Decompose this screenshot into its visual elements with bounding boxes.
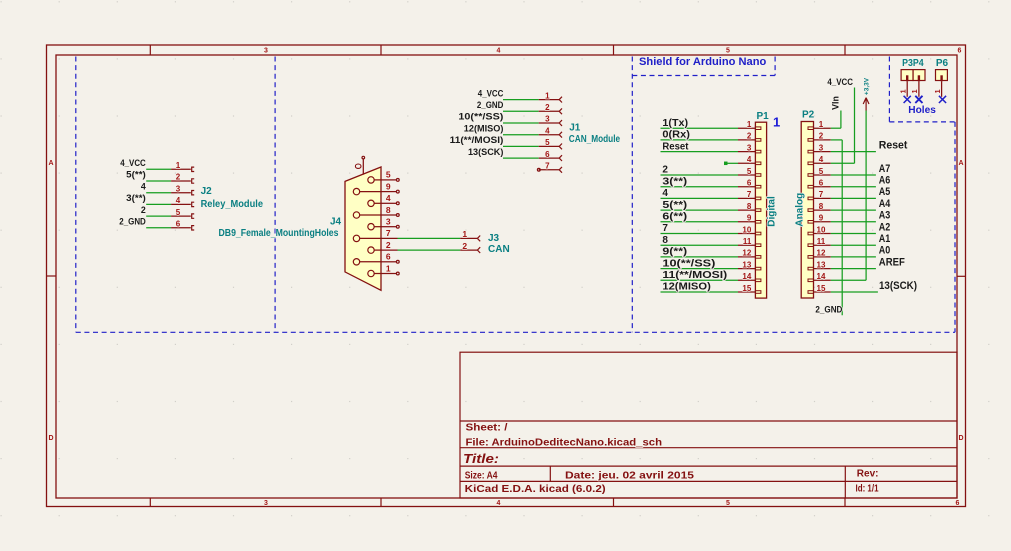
wire to P1 pin 2 [661, 139, 739, 141]
svg-text:Title:: Title: [463, 451, 499, 466]
svg-text:3: 3 [386, 217, 391, 227]
svg-text:9: 9 [819, 214, 824, 223]
J4 pin 5 pad [368, 177, 381, 183]
P2 pin 5 [808, 174, 831, 177]
svg-text:1: 1 [773, 115, 780, 130]
P1 pin 7 [738, 197, 761, 200]
wire to P1 pin 11 [661, 244, 739, 246]
J1 pin 3 [539, 120, 562, 126]
J4 pin 9 pad [353, 188, 381, 194]
svg-text:11: 11 [817, 237, 826, 246]
J4 pin 8 stub [381, 214, 399, 217]
svg-text:J4: J4 [330, 216, 342, 227]
wire P2 pin2 to 2_GND [831, 140, 842, 315]
svg-text:5: 5 [747, 167, 752, 176]
P1 pin 2 [738, 139, 761, 142]
svg-text:P1: P1 [757, 111, 770, 122]
svg-text:D: D [48, 435, 53, 442]
svg-text:A3: A3 [879, 210, 891, 222]
svg-text:2_GND: 2_GND [477, 100, 504, 110]
wire to P1 pin 9 [661, 221, 739, 223]
frame column ticks [47, 45, 966, 507]
svg-text:4: 4 [386, 193, 391, 203]
J4 pin 5 stub [381, 179, 399, 182]
P1 pin 8 [738, 209, 761, 212]
svg-text:VIn: VIn [831, 96, 841, 110]
J4 pin 7 stub [381, 237, 398, 239]
svg-text:Id: 1/1: Id: 1/1 [856, 484, 879, 495]
svg-text:14: 14 [742, 272, 751, 281]
svg-text:2: 2 [176, 173, 181, 182]
wire to J2 pin 2 [146, 180, 171, 182]
J2 pin 1 [171, 167, 194, 171]
svg-text:3(**): 3(**) [662, 176, 687, 187]
svg-text:9(**): 9(**) [662, 247, 687, 258]
svg-text:1: 1 [462, 229, 467, 239]
P2 pin 4 [808, 162, 831, 165]
svg-text:9: 9 [386, 181, 391, 191]
P2 pin 15 [808, 291, 831, 294]
no-connect X at P3 [904, 96, 911, 103]
svg-text:1: 1 [386, 263, 391, 273]
dashed box Holes group [889, 57, 955, 122]
svg-text:P6: P6 [936, 58, 949, 69]
P2 pin 9 [808, 221, 831, 224]
svg-text:3: 3 [747, 143, 752, 152]
svg-text:5: 5 [819, 167, 824, 176]
svg-text:9: 9 [747, 214, 752, 223]
P1 pin 6 [738, 185, 761, 188]
wire to J2 pin 5 [146, 215, 171, 217]
svg-text:4_VCC: 4_VCC [827, 77, 853, 87]
wire to J1 pin 5 [503, 145, 539, 147]
J4 pin 6 pad [353, 259, 381, 265]
J4 pin 8 pad [353, 212, 381, 218]
svg-text:KiCad E.D.A. kicad (6.0.2): KiCad E.D.A. kicad (6.0.2) [465, 484, 606, 495]
P1 pin 9 [738, 221, 761, 224]
svg-text:7: 7 [747, 190, 752, 199]
svg-text:2: 2 [545, 103, 550, 112]
svg-text:12: 12 [742, 249, 751, 258]
P2 pin 3 [808, 150, 831, 153]
sheet frame outer border [47, 45, 966, 507]
wire to J2 pin 3 [146, 192, 171, 194]
P4 pin 1 [918, 75, 920, 97]
svg-text:1: 1 [747, 120, 752, 129]
J1 pin 2 [539, 108, 562, 114]
svg-text:Digital: Digital [767, 196, 778, 227]
wire to J2 pin 6 [146, 227, 171, 229]
svg-text:1: 1 [900, 89, 907, 93]
wire J4 pin2 to J3 pin2 [398, 249, 461, 251]
P2 pin 12 [808, 256, 831, 259]
svg-text:13: 13 [742, 260, 751, 269]
svg-text:4: 4 [141, 181, 146, 191]
P1 pin 3 [738, 150, 761, 153]
wire to P1 pin 12 [661, 256, 739, 258]
svg-text:8: 8 [386, 205, 391, 215]
svg-text:7: 7 [662, 223, 668, 234]
svg-text:4: 4 [545, 126, 550, 135]
svg-text:J3: J3 [488, 233, 500, 244]
wire P2 pin9 A3 [831, 221, 876, 223]
svg-text:2: 2 [462, 241, 467, 251]
P3 pin 1 [906, 75, 908, 97]
wire P2 pin1 to VIn [831, 111, 841, 129]
P1 pin 5 [738, 174, 761, 177]
svg-text:13(SCK): 13(SCK) [468, 147, 503, 157]
J4 shield pin 10 [355, 156, 364, 174]
svg-text:1: 1 [545, 91, 550, 100]
svg-text:3: 3 [819, 143, 824, 152]
wire P2 pin4 to 4_VCC [831, 88, 855, 164]
wire P2 pin15 13(SCK) [831, 291, 878, 293]
J4 pin 2 stub [381, 249, 398, 251]
wire P2 pin11 A1 [831, 244, 876, 246]
frame row letters [48, 160, 963, 442]
svg-text:4: 4 [662, 188, 668, 199]
svg-text:A2: A2 [879, 221, 891, 233]
J1 pin 7 [537, 167, 562, 173]
wire to J1 pin 4 [503, 134, 539, 136]
svg-text:6(**): 6(**) [662, 212, 687, 223]
svg-text:7: 7 [545, 162, 550, 171]
J4 pin 6 stub [381, 260, 399, 263]
P2 pin 10 [808, 232, 831, 235]
J3 pin 1 [460, 236, 480, 242]
svg-text:4: 4 [819, 155, 824, 164]
svg-text:10(**/SS): 10(**/SS) [458, 112, 503, 122]
wire to P1 pin 15 [661, 291, 739, 293]
svg-text:A6: A6 [879, 175, 891, 187]
P1 pin 11 [738, 244, 761, 247]
svg-text:8: 8 [662, 235, 668, 246]
J3 pin 2 [460, 247, 480, 253]
P1 pin 13 [738, 267, 761, 270]
svg-text:Rev:: Rev: [857, 469, 879, 480]
svg-text:J2: J2 [201, 186, 213, 197]
svg-text:10(**/SS): 10(**/SS) [662, 258, 715, 269]
svg-text:6: 6 [747, 179, 752, 188]
wire to P1 pin 8 [661, 209, 739, 211]
P2 pin 13 [808, 267, 831, 270]
svg-text:1: 1 [935, 89, 942, 93]
sheet frame inner border [56, 55, 957, 498]
svg-text:P3P4: P3P4 [902, 58, 924, 69]
J2 pin 6 [171, 226, 194, 230]
svg-text:A: A [48, 160, 53, 167]
svg-text:Date: jeu. 02 avril 2015: Date: jeu. 02 avril 2015 [565, 470, 695, 481]
P1 pin 15 [738, 291, 761, 294]
svg-text:5: 5 [386, 170, 391, 180]
svg-text:11(**/MOSI): 11(**/MOSI) [662, 270, 727, 281]
dangling wire stub at P1 pin 4 [724, 162, 738, 166]
svg-text:File: ArduinoDeditecNano.kicad: File: ArduinoDeditecNano.kicad_sch [466, 438, 663, 449]
mounting hole P3 body [901, 70, 913, 81]
svg-text:1: 1 [912, 89, 919, 93]
J2 pin 4 [171, 202, 194, 206]
J4 pin 2 pad [368, 247, 381, 253]
wire P2 pin5 A7 [831, 174, 876, 176]
svg-text:D: D [958, 435, 963, 442]
svg-text:11: 11 [743, 237, 752, 246]
wire P2 pin12 A0 [831, 256, 876, 258]
J2 pin 3 [171, 191, 194, 195]
P2 pin 2 [808, 139, 831, 142]
dashed title sub-box Shield for Arduino Nano [632, 57, 775, 76]
svg-text:A: A [958, 160, 963, 167]
wire P2 pin14 to +3,3V [831, 111, 866, 281]
wire to J2 pin 4 [146, 203, 171, 205]
svg-text:4: 4 [497, 500, 501, 507]
svg-text:10: 10 [742, 225, 751, 234]
svg-text:3: 3 [264, 48, 268, 55]
P2 pin 14 [808, 279, 831, 282]
J1 pin 1 [539, 97, 562, 103]
connector P2 body [801, 122, 813, 299]
P6 pin 1 [940, 75, 942, 97]
svg-text:6: 6 [176, 220, 181, 229]
mounting hole P6 body [936, 70, 948, 81]
svg-text:14: 14 [817, 272, 826, 281]
P1 pin 4 [738, 162, 761, 165]
svg-text:AREF: AREF [879, 256, 905, 268]
wire to J2 pin 1 [146, 168, 171, 170]
svg-text:Reset: Reset [662, 141, 689, 152]
svg-text:13: 13 [817, 260, 826, 269]
svg-text:4_VCC: 4_VCC [478, 88, 504, 98]
svg-text:6: 6 [545, 150, 550, 159]
J4 pin 7 pad [353, 235, 381, 241]
wire P2 pin7 A5 [831, 197, 876, 199]
dashed selection box left group [76, 57, 955, 333]
svg-text:4_VCC: 4_VCC [120, 158, 146, 168]
svg-text:A7: A7 [879, 163, 891, 175]
no-connect X at P6 [939, 96, 946, 103]
J4 pin 1 stub [381, 272, 399, 275]
svg-text:1(Tx): 1(Tx) [662, 118, 688, 129]
J4 pin 3 stub [381, 225, 399, 228]
svg-text:12(MISO): 12(MISO) [464, 123, 504, 133]
connector P1 body [755, 122, 766, 298]
P2 pin 11 [808, 244, 831, 247]
wire to P1 pin 3 [661, 151, 739, 153]
svg-text:6: 6 [956, 500, 960, 507]
wire J4 pin7 to J3 pin1 [398, 237, 461, 239]
wire to J1 pin 1 [503, 99, 539, 101]
svg-text:5: 5 [726, 500, 730, 507]
svg-text:DB9_Female_MountingHoles: DB9_Female_MountingHoles [219, 228, 339, 239]
wire P2 pin3 Reset [831, 151, 876, 153]
wire to J1 pin 2 [503, 110, 539, 112]
svg-text:3: 3 [176, 184, 181, 193]
svg-text:Holes: Holes [908, 105, 936, 116]
svg-text:2: 2 [141, 205, 146, 215]
svg-text:7: 7 [819, 190, 824, 199]
connector J2 Reley_Module [0, 0, 1, 1]
wire P2 pin8 A4 [831, 209, 876, 211]
svg-text:4: 4 [176, 196, 181, 205]
svg-text:13(SCK): 13(SCK) [879, 280, 917, 292]
svg-text:Sheet: /: Sheet: / [466, 423, 508, 434]
J2 pin 5 [171, 214, 194, 218]
svg-text:Size: A4: Size: A4 [465, 470, 498, 481]
J4 pin 4 pad [368, 200, 381, 206]
svg-text:2: 2 [386, 240, 391, 250]
J4 pin 3 pad [368, 224, 381, 230]
svg-text:10: 10 [817, 225, 826, 234]
svg-text:4: 4 [747, 155, 752, 164]
svg-text:5(**): 5(**) [126, 170, 146, 180]
J2 pin 2 [171, 179, 194, 183]
wire to P1 pin 1 [661, 127, 739, 129]
J4 pin 4 stub [381, 202, 399, 205]
svg-text:6: 6 [958, 48, 962, 55]
svg-text:3: 3 [545, 115, 550, 124]
svg-text:1: 1 [176, 161, 181, 170]
J1 pin 6 [539, 155, 562, 161]
svg-text:Reley_Module: Reley_Module [201, 199, 264, 210]
svg-text:7: 7 [386, 228, 391, 238]
P1 pin 12 [738, 256, 761, 259]
J4 pin 9 stub [381, 190, 399, 193]
svg-text:Reset: Reset [879, 139, 908, 151]
svg-text:A0: A0 [879, 245, 891, 257]
P1 pin 1 [738, 127, 761, 130]
P2 pin 1 [808, 127, 831, 130]
wire to J1 pin 3 [503, 122, 539, 124]
mounting hole P4 body [913, 70, 925, 81]
connector J4 DB9 body [345, 167, 381, 290]
svg-text:5: 5 [176, 208, 181, 217]
svg-text:4: 4 [497, 48, 501, 55]
wire to P1 pin 6 [661, 186, 739, 188]
svg-text:12(MISO): 12(MISO) [662, 282, 710, 293]
wire to P1 pin 10 [661, 233, 739, 235]
J4 pin 1 pad [368, 270, 381, 276]
wire to P1 pin 14 [661, 279, 739, 281]
power symbol +3,3V arrow [863, 98, 869, 111]
svg-text:15: 15 [742, 284, 751, 293]
svg-text:3(**): 3(**) [126, 193, 146, 203]
wire P2 pin6 A6 [831, 186, 876, 188]
P2 pin 7 [808, 197, 831, 200]
svg-text:12: 12 [817, 249, 826, 258]
no-connect X at P4 [915, 96, 922, 103]
svg-text:5: 5 [726, 48, 730, 55]
svg-text:J1: J1 [569, 123, 581, 134]
svg-text:11(**/MOSI): 11(**/MOSI) [450, 135, 504, 145]
svg-text:P2: P2 [802, 110, 815, 121]
svg-text:A1: A1 [879, 233, 891, 245]
frame column numbers bottom [264, 500, 960, 507]
svg-text:15: 15 [817, 284, 826, 293]
svg-text:A4: A4 [879, 198, 891, 210]
svg-text:3: 3 [264, 500, 268, 507]
J1 pin 4 [539, 132, 562, 138]
P1 pin 14 [738, 279, 761, 282]
svg-text:2: 2 [747, 132, 752, 141]
svg-text:8: 8 [747, 202, 752, 211]
svg-text:2_GND: 2_GND [815, 305, 842, 315]
svg-text:Shield for Arduino Nano: Shield for Arduino Nano [639, 56, 767, 68]
frame column numbers top [264, 48, 962, 55]
svg-text:6: 6 [819, 179, 824, 188]
svg-text:Analog: Analog [794, 193, 805, 227]
svg-text:2: 2 [662, 165, 668, 176]
P2 pin 8 [808, 209, 831, 212]
wire to P1 pin 5 [661, 174, 739, 176]
P2 pin 6 [808, 185, 831, 188]
svg-text:5: 5 [545, 138, 550, 147]
wire to P1 pin 7 [661, 197, 739, 199]
svg-text:5(**): 5(**) [662, 200, 687, 211]
svg-text:+3,3V: +3,3V [863, 77, 870, 95]
svg-text:2: 2 [819, 132, 824, 141]
title block outline [460, 352, 957, 498]
svg-text:6: 6 [386, 252, 391, 262]
P1 pin 10 [738, 232, 761, 235]
wire to J1 pin 6 [503, 157, 539, 159]
svg-text:A5: A5 [879, 186, 891, 198]
svg-text:0(Rx): 0(Rx) [662, 130, 690, 141]
wire P2 pin10 A2 [831, 233, 876, 235]
svg-text:2_GND: 2_GND [119, 217, 146, 227]
svg-text:CAN_Module: CAN_Module [569, 134, 621, 145]
svg-text:8: 8 [819, 202, 824, 211]
J1 pin 5 [539, 144, 562, 150]
svg-text:CAN: CAN [488, 244, 510, 255]
svg-text:1: 1 [819, 120, 824, 129]
wire to P1 pin 13 [661, 268, 739, 270]
wire P2 pin13 AREF [831, 268, 876, 270]
